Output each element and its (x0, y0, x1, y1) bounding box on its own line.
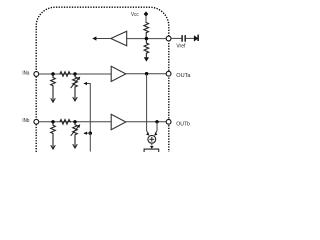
capacitor C1 (external on Vref) (182, 35, 185, 42)
svg-text:INa: INa (22, 71, 30, 77)
wire Vref node row (127, 38, 167, 40)
summing junction (detector) (146, 131, 157, 143)
resistor R3 (INa to ground) (51, 74, 56, 102)
wire OUTa feedback down (146, 74, 148, 131)
arrow into control block (150, 146, 154, 149)
arrow to internal reference (left) (92, 36, 96, 40)
wire INa row (39, 73, 112, 75)
control arrow into VR2 (83, 132, 90, 135)
svg-text:Vcc: Vcc (131, 12, 139, 18)
ground (filled arrow) (144, 57, 149, 61)
node INa-R3 (51, 72, 54, 75)
variable resistor VR1 (71, 74, 81, 101)
arrow terminal (right) (194, 35, 199, 42)
control arrow into VR1 (83, 82, 90, 133)
op-amp U3 channel b (points right) (111, 114, 126, 129)
node OUTa junction (145, 72, 148, 75)
node OUTb junction (155, 120, 158, 123)
pin INb (34, 119, 39, 124)
wire control line to AGC (cropped) (89, 133, 91, 151)
node INa-VCA (73, 72, 76, 75)
control block (cropped) (144, 149, 159, 152)
resistor R2 (Vref node to ground) (144, 39, 149, 58)
wire U2 output to OUTa (126, 73, 167, 75)
wire OUTb feedback down (156, 122, 158, 131)
wire U1 output (93, 38, 111, 40)
node INb-VCA (73, 120, 76, 123)
pin INa (34, 72, 39, 77)
svg-text:Vref: Vref (176, 44, 185, 50)
node INb-R5 (51, 120, 54, 123)
svg-text:OUTa: OUTa (176, 73, 191, 79)
Vcc supply diamond (144, 11, 149, 23)
resistor R6 (series INb) (60, 120, 71, 125)
pin Vref (166, 36, 171, 41)
resistor R5 (INb to ground) (51, 122, 56, 149)
wire Vref pin to cap (171, 37, 182, 39)
pin OUTb (166, 119, 171, 124)
resistor R4 (series INa) (60, 72, 71, 77)
wire summing to control block (151, 143, 153, 145)
svg-text:OUTb: OUTb (176, 121, 190, 127)
node control-VR2 (89, 132, 92, 135)
resistor R1 (Vcc to Vref node) (144, 23, 149, 39)
IC boundary (dashed, cropped at bottom) (36, 7, 169, 152)
wire cap to arrow (186, 37, 194, 39)
node Vref junction (145, 37, 148, 40)
op-amp U1 Vref buffer (points left) (111, 31, 127, 46)
pin OUTa (166, 71, 171, 76)
svg-text:INb: INb (22, 118, 29, 124)
variable resistor VR2 (71, 122, 81, 148)
wire INb row (39, 121, 112, 123)
wire U3 output to OUTb (126, 121, 167, 123)
op-amp U2 channel a (points right) (111, 66, 126, 81)
